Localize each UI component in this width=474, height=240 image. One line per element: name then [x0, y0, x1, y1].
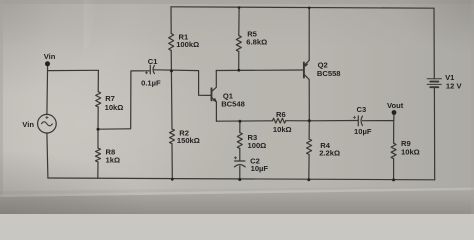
- resistor R9: [393, 121, 395, 144]
- capacitor C2: [235, 160, 245, 162]
- svg-text:C1: C1: [148, 57, 158, 66]
- wire V1 branch upper: [433, 8, 435, 78]
- resistor R4: [308, 121, 310, 139]
- bottom shadow band (paper edge): [0, 186, 474, 214]
- capacitor C3: [357, 116, 359, 126]
- transistor Q2: [304, 8, 310, 121]
- svg-text:Vin: Vin: [44, 52, 56, 61]
- wire emitter rail Q1 to C3: [216, 120, 272, 122]
- capacitor C1: [149, 65, 151, 74]
- junction R5 top on VCC rail: [238, 6, 241, 9]
- junction R3 top / emitter wire: [238, 120, 241, 123]
- wire Vin to R7: [48, 69, 99, 71]
- battery V1: [427, 79, 441, 87]
- svg-text:Vin: Vin: [22, 120, 34, 129]
- svg-text:10kΩ: 10kΩ: [105, 103, 124, 112]
- resistor R8: [97, 129, 99, 148]
- junction R9 bottom on ground rail: [392, 178, 395, 181]
- node Vout terminal dot: [392, 110, 397, 115]
- svg-text:Vout: Vout: [387, 101, 404, 110]
- svg-text:1kΩ: 1kΩ: [106, 156, 121, 165]
- ac source Vin: [38, 114, 57, 133]
- svg-text:100kΩ: 100kΩ: [176, 40, 199, 49]
- resistor R1: [170, 7, 172, 34]
- wire Vout stub: [393, 114, 395, 120]
- resistor R2: [170, 71, 173, 129]
- node Vin terminal dot: [45, 61, 50, 66]
- svg-text:R7: R7: [105, 94, 115, 103]
- svg-text:C3: C3: [357, 105, 367, 114]
- svg-text:R6: R6: [276, 110, 286, 119]
- wire V1 branch lower: [433, 88, 435, 180]
- svg-text:10kΩ: 10kΩ: [273, 125, 292, 134]
- svg-text:10µF: 10µF: [251, 164, 269, 173]
- svg-text:10µF: 10µF: [354, 127, 372, 136]
- svg-text:Q2: Q2: [318, 61, 328, 70]
- resistor R5: [238, 8, 240, 36]
- junction R1/R2/C1: [170, 69, 173, 72]
- svg-text:BC558: BC558: [317, 69, 341, 78]
- junction R4 bottom on ground rail: [307, 178, 310, 181]
- svg-text:12 V: 12 V: [446, 82, 463, 91]
- svg-text:10kΩ: 10kΩ: [401, 148, 420, 157]
- svg-text:0.1µF: 0.1µF: [141, 78, 161, 87]
- junction Q2 emitter on VCC rail: [308, 7, 311, 10]
- wire C3 to Vout/R9: [362, 120, 393, 122]
- resistor R6: [273, 118, 286, 123]
- junction R4 top / R6 / Q2 collector: [308, 119, 311, 122]
- junction R5 bottom / Q2 base wire: [237, 69, 240, 72]
- junction R7/R8 divider tap: [97, 128, 100, 131]
- wire Vin vertical: [46, 65, 49, 115]
- svg-text:150kΩ: 150kΩ: [177, 136, 200, 145]
- resistor R7: [97, 70, 99, 91]
- wire dogleg to C1: [98, 71, 150, 129]
- svg-text:100Ω: 100Ω: [248, 141, 267, 150]
- wire Q1 collector to Q2 base: [216, 69, 303, 72]
- junction C2 bottom on ground rail: [238, 178, 241, 181]
- wire source bottom: [47, 133, 48, 178]
- svg-text:BC548: BC548: [221, 100, 245, 109]
- junction R2 bottom on ground rail: [171, 178, 174, 181]
- svg-text:2.2kΩ: 2.2kΩ: [319, 148, 340, 157]
- wire bottom rail: [48, 178, 435, 180]
- transistor Q1: [212, 71, 217, 122]
- svg-text:6.8kΩ: 6.8kΩ: [246, 38, 267, 47]
- wire top rail: [171, 7, 434, 8]
- wire C1 to Q1 base: [154, 70, 211, 96]
- resistor R3: [239, 121, 241, 132]
